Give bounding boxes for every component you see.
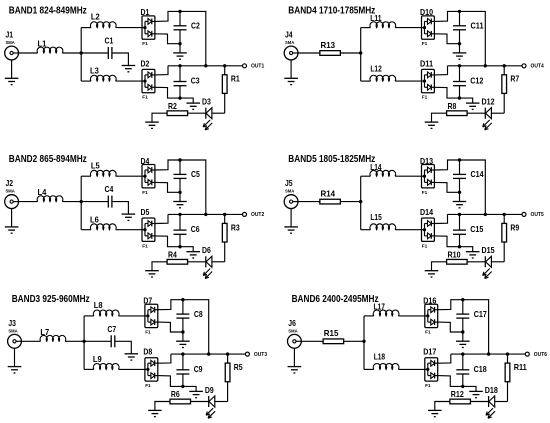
wire [179,178,181,192]
svg-text:R15: R15 [324,328,339,338]
label R9 [510,222,519,232]
wire [179,192,181,201]
wire [83,316,85,370]
wire [459,178,461,192]
junction node [80,200,83,203]
wire [507,354,509,363]
wire [188,112,206,114]
dual diode D17 [424,358,438,381]
wire [180,247,193,252]
capacitor C9 [176,370,189,374]
junction node [458,245,461,248]
wire [182,300,184,314]
junction node [223,213,226,216]
capacitor C17 [456,314,469,318]
svg-text:F1: F1 [142,190,148,196]
junction node [207,352,210,355]
dual diode D14 [421,218,435,241]
label F1 [422,41,428,47]
label J4 [285,30,293,40]
wire [179,11,181,25]
svg-text:L8: L8 [94,300,103,310]
junction node [82,340,85,343]
wire [116,80,142,82]
ground [466,252,480,258]
wire [459,86,461,98]
resistor R1 [222,75,227,94]
label C12 [470,76,483,86]
node OUT5 [522,212,526,216]
label D18 [485,385,498,395]
capacitor C2 [174,26,187,30]
label OUT1 [251,64,264,70]
wire [459,66,461,82]
label C4 [105,184,114,194]
wire [155,34,180,44]
svg-text:D11: D11 [420,58,433,68]
label L11 [370,13,382,23]
ground [186,103,200,109]
svg-text:R4: R4 [168,250,177,260]
wire [182,374,184,386]
wire [180,98,193,103]
junction node [458,10,461,13]
junction node [359,200,362,203]
svg-text:R8: R8 [448,101,457,111]
capacitor C15 [453,230,466,234]
LED D15 [483,256,492,278]
label C2 [191,21,200,31]
svg-text:C4: C4 [105,184,114,194]
wire [459,11,461,25]
label D14 [420,207,433,217]
label R6 [171,389,180,399]
svg-text:F1: F1 [422,41,428,47]
wire [395,80,421,82]
ground [122,214,136,220]
wire [224,214,226,223]
wire [179,86,181,98]
svg-text:D10: D10 [420,7,433,17]
junction node [181,352,184,355]
wire [438,300,489,354]
wire [155,402,170,411]
wire [119,315,145,317]
wire [81,229,91,231]
junction node [178,191,181,194]
label D13 [420,156,433,166]
ground [453,202,467,208]
wire [462,332,464,341]
wire [81,27,91,29]
dual diode D7 [144,304,158,327]
junction node [458,42,461,45]
svg-text:D17: D17 [423,347,436,357]
wire [459,234,461,246]
svg-text:D12: D12 [482,97,495,107]
connector J4 (SMA) [284,46,298,60]
node OUT2 [243,212,247,216]
wire [364,368,374,370]
junction node [461,385,464,388]
label F1 [422,243,428,249]
label R14 [321,189,336,199]
svg-text:OUT4: OUT4 [531,64,544,70]
svg-text:L1: L1 [38,39,47,49]
label D11 [420,58,433,68]
junction node [359,51,362,54]
wire [290,209,292,227]
LED D12 [483,108,492,130]
wire [298,52,320,54]
wire [112,53,128,66]
wire [363,316,365,370]
label R12 [451,389,464,399]
svg-text:R5: R5 [234,362,243,372]
svg-text:F1: F1 [425,330,431,336]
ground [466,103,480,109]
svg-text:C6: C6 [191,224,200,234]
LED D9 [206,396,215,418]
inductor L7 [40,335,66,341]
wire [361,175,371,177]
dual diode D4 [142,165,156,188]
wire [507,382,509,402]
svg-text:BAND1 824-849MHz: BAND1 824-849MHz [9,6,87,17]
label BAND3 title [12,294,90,305]
resistor R11 [505,363,510,382]
ground [425,122,439,128]
ground [8,367,22,373]
wire [62,52,81,54]
resistor R9 [502,223,507,242]
svg-text:C2: C2 [191,21,200,31]
svg-text:C8: C8 [194,309,203,319]
wire [434,87,459,98]
wire [503,214,505,223]
label OUT2 [251,212,264,218]
wire [503,93,505,113]
svg-text:OUT2: OUT2 [251,212,264,218]
wire [340,52,361,54]
capacitor C12 [453,82,466,86]
svg-text:SMA: SMA [288,328,298,334]
label C6 [191,224,200,234]
wire [171,353,246,355]
label F1 [422,190,428,196]
wire [298,201,320,203]
wire [224,93,226,113]
svg-text:L12: L12 [370,63,382,73]
dual diode D11 [421,69,435,92]
junction node [484,213,487,216]
label D4 [141,156,150,166]
label R15 [324,328,339,338]
wire [155,182,180,192]
wire [227,382,229,402]
junction node [181,385,184,388]
wire [158,376,183,387]
label D6 [202,245,211,255]
svg-text:R9: R9 [510,222,519,232]
wire [448,213,523,215]
label F1 [142,95,148,101]
junction node [461,352,464,355]
svg-text:L7: L7 [40,327,49,337]
svg-text:R10: R10 [448,250,461,260]
label C7 [107,324,116,334]
wire [495,401,508,403]
wire [462,374,464,386]
wire [191,401,209,403]
connector J3 (SMA) [8,334,22,348]
label OUT6 [534,352,547,358]
svg-text:D9: D9 [205,385,214,395]
wire [62,201,81,203]
svg-text:C17: C17 [474,309,487,319]
wire [19,52,38,54]
svg-text:F1: F1 [422,95,428,101]
svg-text:L14: L14 [370,162,382,172]
dual diode D13 [421,165,435,188]
wire [463,386,476,391]
resistor R12 [450,399,471,404]
wire [119,368,145,370]
label R8 [448,101,457,111]
label D16 [423,296,436,306]
resistor R2 [167,111,188,116]
resistor R3 [222,223,227,242]
svg-text:C3: C3 [191,76,200,86]
wire [467,261,485,263]
resistor R14 [320,199,341,204]
capacitor C5 [174,174,187,178]
ground [148,410,162,416]
ground [5,78,19,84]
svg-text:F1: F1 [145,330,151,336]
label L1 [38,39,47,49]
svg-text:SMA: SMA [6,189,16,195]
ground [425,271,439,277]
wire [179,234,181,246]
wire [84,368,94,370]
ground [189,391,203,397]
svg-text:L4: L4 [38,187,47,197]
node OUT6 [525,352,529,356]
wire [290,60,292,78]
wire [434,182,459,192]
label C17 [474,309,487,319]
wire [215,401,228,403]
wire [434,66,447,75]
wire [158,300,209,354]
junction node [506,352,509,355]
wire [432,262,447,271]
dual diode D16 [424,304,438,327]
wire [361,80,371,82]
label SMA [285,40,295,46]
svg-text:F1: F1 [142,41,148,47]
wire [81,175,91,177]
inductor L15 [370,224,396,230]
svg-text:OUT5: OUT5 [531,212,544,218]
junction node [204,64,207,67]
svg-text:L17: L17 [374,302,386,312]
dual diode D2 [142,69,156,92]
label BAND4 title [288,6,375,17]
inductor L14 [370,170,396,176]
label C14 [471,169,484,179]
wire [470,401,488,403]
wire [112,202,128,215]
wire [212,261,225,263]
wire [503,66,505,75]
resistor R8 [447,111,468,116]
svg-text:D8: D8 [143,347,152,357]
wire [182,354,184,370]
label F1 [425,383,431,389]
svg-text:R13: R13 [321,40,336,50]
label R3 [231,222,240,232]
svg-text:D13: D13 [420,156,433,166]
node OUT3 [245,352,249,356]
inductor L17 [373,310,399,316]
wire [434,11,485,65]
ground [284,78,298,84]
svg-text:D2: D2 [141,58,150,68]
resistor R10 [447,259,468,264]
svg-text:L18: L18 [374,352,386,362]
inductor L8 [93,310,119,316]
connector J2 (SMA) [5,195,19,209]
svg-text:D4: D4 [141,156,150,166]
svg-text:SMA: SMA [8,328,18,334]
ground [284,227,298,233]
svg-text:BAND4 1710-1785MHz: BAND4 1710-1785MHz [288,6,375,17]
wire [179,66,181,82]
junction node [181,330,184,333]
label J3 [8,318,16,328]
wire [301,340,323,342]
wire [158,322,183,332]
wire [395,229,421,231]
label OUT5 [531,212,544,218]
svg-text:D6: D6 [202,245,211,255]
capacitor C6 [174,230,187,234]
wire [459,214,461,230]
label C1 [105,36,114,46]
ground [469,391,483,397]
connector J5 (SMA) [284,195,298,209]
label D1 [141,7,150,17]
wire [179,30,181,44]
svg-text:C1: C1 [105,36,114,46]
label D5 [141,207,150,217]
label F1 [145,330,151,336]
wire [460,98,473,103]
ground [288,367,302,373]
label F1 [145,383,151,389]
wire [84,315,94,317]
junction node [461,330,464,333]
label SMA [285,189,295,195]
ground [173,202,187,208]
wire [432,113,447,122]
label L5 [91,160,100,170]
junction node [458,213,461,216]
label L15 [370,212,382,222]
svg-text:BAND3 925-960MHz: BAND3 925-960MHz [12,294,90,305]
label D10 [420,7,433,17]
wire [224,242,226,262]
wire [155,236,180,247]
wire [459,192,461,201]
wire [81,52,108,54]
label BAND5 title [288,154,375,165]
label BAND6 title [292,294,379,305]
label F1 [425,330,431,336]
label OUT3 [254,352,267,358]
junction node [503,64,506,67]
label J6 [288,318,296,328]
svg-text:SMA: SMA [6,40,16,46]
wire [116,229,142,231]
inductor L1 [37,47,63,53]
inductor L3 [90,75,116,81]
wire [491,261,504,263]
label L8 [94,300,103,310]
svg-text:J4: J4 [285,30,293,40]
ground [125,354,139,360]
wire [155,214,168,223]
wire [19,201,38,203]
junction node [461,298,464,301]
svg-text:R11: R11 [514,362,527,372]
label L12 [370,63,382,73]
label L9 [93,354,102,364]
svg-text:D14: D14 [420,207,433,217]
wire [116,175,142,177]
label D8 [143,347,152,357]
resistor R15 [323,339,344,344]
junction node [181,298,184,301]
wire [11,60,13,78]
resistor R7 [502,75,507,94]
LED D6 [203,256,212,278]
svg-text:D3: D3 [202,97,211,107]
svg-text:D15: D15 [482,245,495,255]
label SMA [8,328,18,334]
wire [343,340,364,342]
svg-text:L15: L15 [370,212,382,222]
dual diode D10 [421,16,435,39]
wire [361,229,371,231]
junction node [80,51,83,54]
junction node [178,245,181,248]
svg-text:C18: C18 [474,364,487,374]
svg-text:D16: D16 [423,296,436,306]
svg-text:R3: R3 [231,222,240,232]
ground [428,410,442,416]
wire [179,44,181,53]
label L7 [40,327,49,337]
wire [395,175,421,177]
node OUT1 [243,64,247,68]
label SMA [6,40,16,46]
wire [462,354,464,370]
wire [11,209,13,227]
label C9 [194,364,203,374]
